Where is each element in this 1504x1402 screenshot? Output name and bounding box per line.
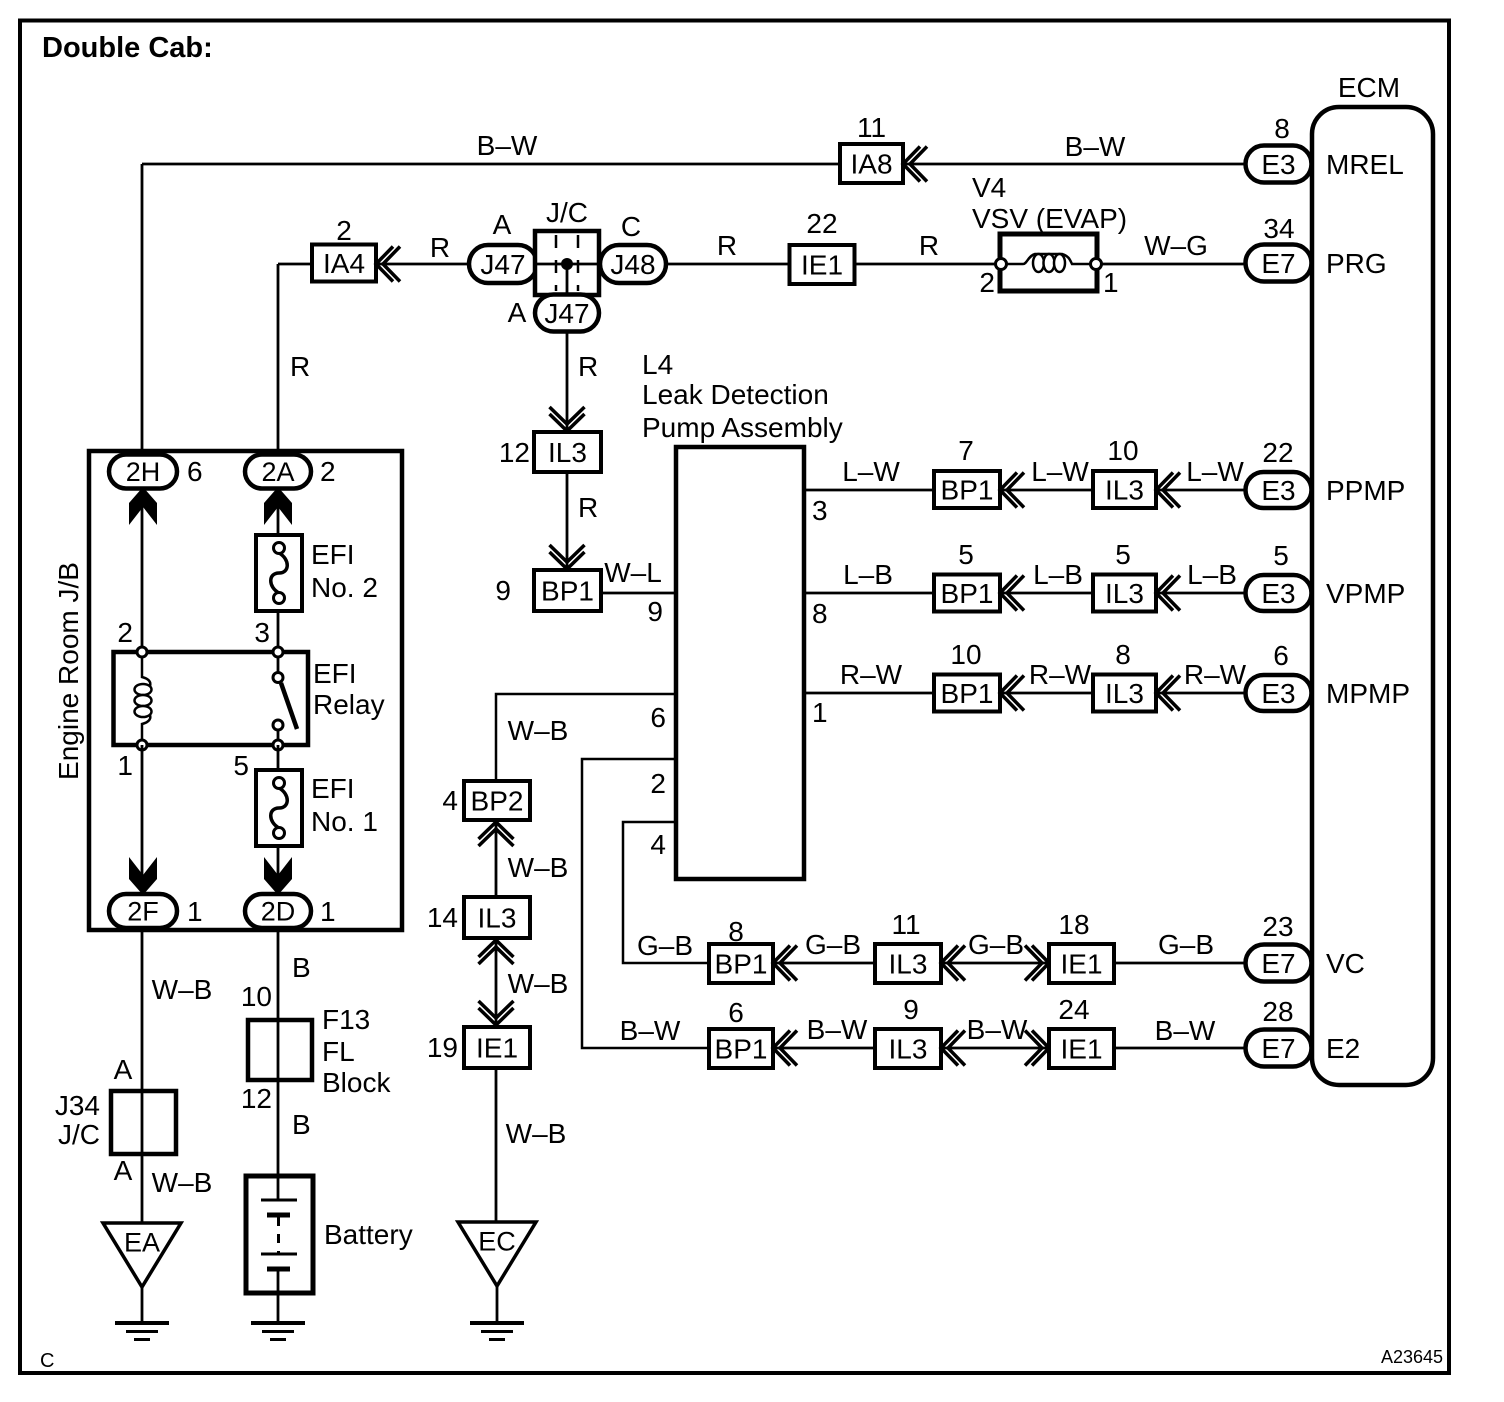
svg-text:11: 11 xyxy=(857,112,886,143)
wire W-B IE1 to EC xyxy=(495,1068,498,1222)
svg-text:28: 28 xyxy=(1262,996,1293,1027)
svg-text:VSV (EVAP): VSV (EVAP) xyxy=(972,203,1127,234)
leak detection pump L4 box xyxy=(676,447,804,879)
wire R from IE1 to VSV xyxy=(855,263,998,266)
wire B-W BP1 to IL3 9 xyxy=(773,1047,875,1050)
svg-text:E3: E3 xyxy=(1261,475,1295,506)
wire fuse No1 to 2D xyxy=(277,846,280,895)
chevron at BP1 6 xyxy=(773,1031,797,1066)
svg-text:Engine Room J/B: Engine Room J/B xyxy=(53,562,84,780)
svg-text:W–B: W–B xyxy=(506,1118,567,1149)
svg-text:2H: 2H xyxy=(126,457,161,487)
svg-text:W–B: W–B xyxy=(152,974,213,1005)
svg-text:E3: E3 xyxy=(1261,149,1295,180)
svg-text:R–W: R–W xyxy=(1184,659,1247,690)
svg-text:MREL: MREL xyxy=(1326,149,1404,180)
svg-text:BP2: BP2 xyxy=(471,786,524,817)
wire W-G from VSV to E7 xyxy=(1101,263,1250,266)
svg-text:R: R xyxy=(717,230,737,261)
svg-text:6: 6 xyxy=(1273,640,1289,671)
connector IL3 8 xyxy=(1093,675,1156,712)
chevron at IA8 xyxy=(903,147,927,182)
arrow up at 2A xyxy=(264,487,292,525)
svg-text:R–W: R–W xyxy=(1029,659,1092,690)
battery box xyxy=(246,1176,313,1293)
svg-text:1: 1 xyxy=(187,896,203,927)
junction block J/C xyxy=(535,231,599,295)
chevron into IL3 12 xyxy=(550,407,585,431)
chevron at BP1 7 xyxy=(1000,473,1024,508)
junction J34 box xyxy=(111,1091,176,1154)
wire L-B BP1 to IL3 5 xyxy=(1000,592,1093,595)
battery internal wire top xyxy=(277,1176,280,1200)
svg-text:W–G: W–G xyxy=(1144,230,1208,261)
svg-text:Relay: Relay xyxy=(313,689,385,720)
svg-text:3: 3 xyxy=(812,495,828,526)
svg-text:2D: 2D xyxy=(261,897,296,927)
relay switch contact upper xyxy=(273,673,283,683)
svg-text:10: 10 xyxy=(241,981,272,1012)
relay switch contact lower xyxy=(273,720,283,730)
svg-text:Double Cab:: Double Cab: xyxy=(42,32,213,64)
svg-text:11: 11 xyxy=(891,909,920,940)
svg-text:IA4: IA4 xyxy=(323,248,365,279)
svg-text:8: 8 xyxy=(812,598,828,629)
relay terminal 3 xyxy=(273,647,283,657)
svg-text:BP1: BP1 xyxy=(715,1034,768,1065)
svg-text:L4: L4 xyxy=(642,349,673,380)
svg-text:Pump Assembly: Pump Assembly xyxy=(642,412,843,443)
connector IE1 18 xyxy=(1049,944,1114,983)
fuse EFI No. 1 xyxy=(256,770,302,846)
svg-text:R: R xyxy=(290,351,310,382)
connector IE1 19 xyxy=(464,1027,530,1068)
svg-text:2: 2 xyxy=(979,267,995,298)
svg-text:L–W: L–W xyxy=(1031,456,1089,487)
svg-text:ECM: ECM xyxy=(1338,72,1400,103)
svg-text:6: 6 xyxy=(650,702,666,733)
wire R-W BP1 to IL3 8 xyxy=(1000,692,1093,695)
wire G-B IL3 to IE1 18 xyxy=(941,962,1049,965)
connector 2A xyxy=(245,455,311,489)
svg-text:E7: E7 xyxy=(1261,248,1295,279)
svg-text:IL3: IL3 xyxy=(548,437,587,468)
svg-text:IL3: IL3 xyxy=(1105,678,1144,709)
svg-text:L–B: L–B xyxy=(1033,559,1083,590)
svg-text:EA: EA xyxy=(124,1228,160,1258)
wire B-W IL3 to IE1 24 xyxy=(941,1047,1049,1050)
svg-text:R: R xyxy=(578,351,598,382)
svg-text:B–W: B–W xyxy=(1155,1015,1216,1046)
svg-text:R: R xyxy=(578,492,598,523)
chevron at IL3 8 xyxy=(1156,676,1180,711)
wire W-B IL3 to IE1 19 xyxy=(495,938,498,1027)
svg-text:R: R xyxy=(919,230,939,261)
connector E7 E2 xyxy=(1246,1030,1312,1067)
arrow down at 2D xyxy=(264,857,292,895)
svg-text:IL3: IL3 xyxy=(889,949,928,980)
relay terminal 2 xyxy=(137,647,147,657)
ground triangle EA xyxy=(103,1223,181,1287)
svg-text:No. 1: No. 1 xyxy=(311,806,378,837)
connector E3 PPMP xyxy=(1246,472,1312,508)
svg-text:5: 5 xyxy=(1115,539,1131,570)
wire J34 to EA xyxy=(141,1154,144,1223)
connector BP1 8 xyxy=(709,944,773,983)
J/C dashed internals xyxy=(556,235,578,291)
svg-text:L–W: L–W xyxy=(842,456,900,487)
svg-text:1: 1 xyxy=(117,750,133,781)
connector IL3 14 xyxy=(464,897,530,938)
battery plate short 1 xyxy=(267,1213,290,1218)
svg-text:J34: J34 xyxy=(55,1090,100,1121)
svg-text:PRG: PRG xyxy=(1326,248,1387,279)
arrow up at 2H xyxy=(129,487,157,525)
svg-text:PPMP: PPMP xyxy=(1326,475,1405,506)
svg-text:No. 2: No. 2 xyxy=(311,572,378,603)
svg-text:B: B xyxy=(292,952,311,983)
svg-text:E3: E3 xyxy=(1261,578,1295,609)
chevron up into BP2 xyxy=(479,822,514,846)
ECM box xyxy=(1312,107,1433,1085)
svg-text:IE1: IE1 xyxy=(476,1033,518,1064)
svg-text:L–W: L–W xyxy=(1186,456,1244,487)
svg-text:10: 10 xyxy=(950,639,981,670)
junction connector J47 A bottom xyxy=(535,295,599,332)
J/C junction dot xyxy=(561,258,573,270)
relay terminal 5 xyxy=(273,740,283,750)
wire B F13 to battery xyxy=(277,1080,280,1177)
connector IL3 9 xyxy=(875,1029,941,1068)
wire battery to ground xyxy=(277,1293,280,1323)
svg-text:6: 6 xyxy=(728,997,744,1028)
svg-text:IL3: IL3 xyxy=(1105,578,1144,609)
J/C wire through xyxy=(537,263,599,266)
wire B-W pump pin2 to BP1 6 xyxy=(582,759,709,1048)
svg-text:9: 9 xyxy=(647,596,663,627)
svg-text:9: 9 xyxy=(903,994,919,1025)
svg-text:2: 2 xyxy=(336,215,352,246)
svg-text:BP1: BP1 xyxy=(715,949,768,980)
relay terminal 1 xyxy=(137,740,147,750)
svg-text:Block: Block xyxy=(322,1067,391,1098)
svg-text:J48: J48 xyxy=(610,249,655,280)
connector BP1 9 xyxy=(534,570,601,611)
svg-text:BP1: BP1 xyxy=(941,578,994,609)
svg-text:C: C xyxy=(621,211,641,242)
connector E7 PRG xyxy=(1246,245,1312,282)
svg-text:J47: J47 xyxy=(480,249,525,280)
svg-text:IE1: IE1 xyxy=(801,250,843,281)
svg-text:2: 2 xyxy=(117,617,133,648)
svg-text:EC: EC xyxy=(478,1227,516,1257)
chevron into IE1 24 xyxy=(1025,1031,1049,1066)
svg-text:A23645: A23645 xyxy=(1381,1347,1443,1367)
ground symbol EA xyxy=(115,1321,169,1325)
svg-text:VPMP: VPMP xyxy=(1326,578,1405,609)
fuse EFI No. 2 xyxy=(256,535,302,611)
svg-text:W–B: W–B xyxy=(508,715,569,746)
wire R from IL3 to BP1 xyxy=(566,472,569,569)
relay coil xyxy=(142,652,150,686)
svg-text:2: 2 xyxy=(650,768,666,799)
svg-text:L–B: L–B xyxy=(1187,559,1237,590)
chevron at IL3 10 xyxy=(1156,473,1180,508)
wire B-W from node to IA8 xyxy=(142,163,840,166)
wire R from IA4 to J47 xyxy=(376,263,472,266)
svg-text:IL3: IL3 xyxy=(889,1034,928,1065)
chevron at IL3 5 xyxy=(1156,576,1180,611)
battery plate long 2 xyxy=(261,1253,297,1256)
svg-text:J/C: J/C xyxy=(58,1119,100,1150)
svg-text:18: 18 xyxy=(1058,909,1089,940)
svg-text:IA8: IA8 xyxy=(850,149,892,180)
svg-text:2: 2 xyxy=(320,456,336,487)
connector BP1 7 xyxy=(934,471,1000,508)
svg-text:C: C xyxy=(40,1350,54,1372)
svg-text:22: 22 xyxy=(806,208,837,239)
wire W-B pump pin6 xyxy=(496,694,676,781)
svg-text:2A: 2A xyxy=(261,457,294,487)
connector 2H xyxy=(109,455,177,489)
chevron at BP1 8 xyxy=(773,946,797,981)
junction connector J47 A xyxy=(469,245,537,283)
svg-text:G–B: G–B xyxy=(805,929,861,960)
connector BP2 4 xyxy=(464,781,530,820)
svg-text:IL3: IL3 xyxy=(1105,475,1144,506)
connector BP1 5 xyxy=(934,575,1000,612)
wire W-B BP2 to IL3 14 xyxy=(495,820,498,897)
svg-text:Leak Detection: Leak Detection xyxy=(642,379,829,410)
wire L-W pump to BP1 7 xyxy=(804,489,934,492)
VSV coil xyxy=(1006,254,1092,264)
battery internal wire bottom xyxy=(277,1269,280,1293)
svg-text:IL3: IL3 xyxy=(478,903,517,934)
connector IA8 xyxy=(840,144,903,183)
junction connector J48 C xyxy=(600,245,666,283)
svg-text:E7: E7 xyxy=(1261,1033,1295,1064)
svg-text:B–W: B–W xyxy=(967,1014,1028,1045)
wire EC to ground xyxy=(496,1286,499,1323)
svg-text:B: B xyxy=(292,1109,311,1140)
connector IA4 xyxy=(312,245,376,282)
svg-text:3: 3 xyxy=(254,617,270,648)
svg-text:Battery: Battery xyxy=(324,1219,413,1250)
fusible link block F13 xyxy=(248,1020,312,1080)
svg-text:L–B: L–B xyxy=(843,559,893,590)
chevron into BP1 9 xyxy=(550,545,585,569)
battery plate long 1 xyxy=(261,1199,297,1202)
svg-text:9: 9 xyxy=(495,575,511,606)
svg-text:A: A xyxy=(114,1155,133,1186)
wire EA to ground xyxy=(141,1287,144,1323)
connector IE1 24 xyxy=(1049,1029,1114,1068)
ground triangle EC xyxy=(458,1222,536,1286)
svg-text:B–W: B–W xyxy=(620,1015,681,1046)
svg-text:EFI: EFI xyxy=(313,658,357,689)
svg-text:G–B: G–B xyxy=(637,930,693,961)
svg-text:B–W: B–W xyxy=(1065,131,1126,162)
connector IL3 11 xyxy=(875,944,941,983)
wire J34 internal xyxy=(141,1091,144,1154)
svg-text:E7: E7 xyxy=(1261,948,1295,979)
relay switch wire xyxy=(277,652,280,677)
EFI relay box xyxy=(114,652,309,745)
wire 2A to fuse EFI No2 xyxy=(277,488,280,535)
wire R from IA4 to 2A node xyxy=(278,263,312,266)
relay switch blade xyxy=(281,683,297,729)
wire B-W IE1 to E7 28 xyxy=(1114,1047,1250,1050)
chevron at BP1 5 xyxy=(1000,576,1024,611)
svg-text:8: 8 xyxy=(1274,113,1290,144)
battery dashed middle xyxy=(277,1217,280,1253)
connector IL3 5 xyxy=(1093,575,1156,612)
wire G-B IE1 to E7 23 xyxy=(1114,962,1250,965)
chevron at IL3 9 xyxy=(941,1031,965,1066)
wire L-W IL3 to E3 22 xyxy=(1156,489,1252,492)
svg-text:V4: V4 xyxy=(972,172,1006,203)
connector IE1 22 xyxy=(790,245,855,284)
svg-text:G–B: G–B xyxy=(968,929,1024,960)
svg-text:EFI: EFI xyxy=(311,773,355,804)
svg-text:19: 19 xyxy=(427,1032,458,1063)
svg-text:14: 14 xyxy=(427,902,458,933)
wire relay pin5 to fuse EFI No1 xyxy=(277,745,280,770)
wire G-B pump pin4 to BP1 8 xyxy=(623,822,709,963)
svg-text:FL: FL xyxy=(322,1036,355,1067)
svg-text:4: 4 xyxy=(650,829,666,860)
svg-text:10: 10 xyxy=(1107,435,1138,466)
svg-text:A: A xyxy=(114,1054,133,1085)
J/C wire down from dot xyxy=(566,264,569,296)
chevron at IL3 11 xyxy=(941,946,965,981)
svg-text:34: 34 xyxy=(1263,213,1294,244)
wire L-W BP1 to IL3 10 xyxy=(1000,489,1093,492)
arrow down at 2F xyxy=(129,857,157,895)
svg-text:F13: F13 xyxy=(322,1004,370,1035)
svg-text:4: 4 xyxy=(442,785,458,816)
svg-text:6: 6 xyxy=(187,456,203,487)
connector BP1 10 xyxy=(934,675,1000,712)
svg-text:8: 8 xyxy=(728,916,744,947)
connector E3 VPMP xyxy=(1246,575,1312,611)
connector E3 MPMP xyxy=(1246,675,1312,711)
svg-text:E3: E3 xyxy=(1261,678,1295,709)
svg-text:1: 1 xyxy=(1103,267,1119,298)
svg-text:5: 5 xyxy=(233,750,249,781)
wire B-W from IA8 to E3 xyxy=(903,163,1250,166)
svg-text:BP1: BP1 xyxy=(541,576,594,607)
svg-text:A: A xyxy=(493,209,512,240)
relay switch lower wire xyxy=(277,725,280,745)
connector 2D xyxy=(245,894,311,928)
svg-text:J/C: J/C xyxy=(546,197,588,228)
chevron at BP1 10 xyxy=(1000,676,1024,711)
svg-text:A: A xyxy=(508,297,527,328)
svg-text:1: 1 xyxy=(812,697,828,728)
svg-text:G–B: G–B xyxy=(1158,929,1214,960)
svg-text:W–B: W–B xyxy=(508,968,569,999)
ground symbol EC xyxy=(470,1321,524,1325)
svg-text:R: R xyxy=(430,232,450,263)
wire G-B BP1 to IL3 11 xyxy=(773,962,875,965)
svg-text:5: 5 xyxy=(958,539,974,570)
wire R-W pump to BP1 10 xyxy=(804,692,934,695)
svg-text:EFI: EFI xyxy=(311,539,355,570)
svg-text:12: 12 xyxy=(241,1083,272,1114)
ground symbol battery xyxy=(251,1321,305,1325)
VSV EVAP valve V4 xyxy=(1000,234,1097,291)
wire 2H to relay pin2 xyxy=(141,488,144,652)
chevron into IE1 18 xyxy=(1025,946,1049,981)
svg-text:MPMP: MPMP xyxy=(1326,678,1410,709)
wire B 2D to F13 xyxy=(277,928,280,1020)
svg-text:1: 1 xyxy=(320,896,336,927)
svg-text:BP1: BP1 xyxy=(941,475,994,506)
wire R down from J47 xyxy=(566,332,569,433)
connector IL3 12 xyxy=(534,432,601,472)
svg-text:8: 8 xyxy=(1115,639,1131,670)
svg-text:W–B: W–B xyxy=(152,1167,213,1198)
connector E7 VC xyxy=(1246,945,1312,982)
svg-text:BP1: BP1 xyxy=(941,678,994,709)
svg-text:B–W: B–W xyxy=(477,130,538,161)
svg-text:B–W: B–W xyxy=(807,1014,868,1045)
wire through F13 xyxy=(277,1020,280,1080)
wire W-L from BP1 to pump pin 9 xyxy=(601,592,676,595)
wire R vertical to 2A xyxy=(277,264,280,455)
svg-text:R–W: R–W xyxy=(840,659,903,690)
svg-text:VC: VC xyxy=(1326,948,1365,979)
connector E3 MREL xyxy=(1246,146,1312,183)
Engine Room J/B box xyxy=(89,451,402,930)
svg-text:IE1: IE1 xyxy=(1060,1034,1102,1065)
svg-text:J47: J47 xyxy=(544,298,589,329)
chevron at IA4 xyxy=(376,247,400,282)
wire L-B pump to BP1 5 xyxy=(804,592,934,595)
wire B-W vertical to 2H xyxy=(141,164,144,455)
chevron up into IL3 14 xyxy=(479,940,514,964)
svg-text:W–B: W–B xyxy=(508,852,569,883)
connector 2F xyxy=(109,894,177,928)
VSV terminal 1 xyxy=(1091,259,1102,270)
svg-text:W–L: W–L xyxy=(604,557,662,588)
svg-text:24: 24 xyxy=(1058,994,1089,1025)
svg-text:22: 22 xyxy=(1262,437,1293,468)
connector BP1 6 xyxy=(709,1029,773,1068)
VSV terminal 2 xyxy=(996,259,1007,270)
svg-text:23: 23 xyxy=(1262,911,1293,942)
svg-text:5: 5 xyxy=(1273,540,1289,571)
svg-text:IE1: IE1 xyxy=(1060,949,1102,980)
svg-text:12: 12 xyxy=(499,437,530,468)
wire relay pin1 to 2F xyxy=(141,745,144,895)
svg-text:E2: E2 xyxy=(1326,1033,1360,1064)
wire fuse to relay pin3 xyxy=(277,611,280,652)
connector IL3 10 xyxy=(1093,471,1156,508)
chevron down into IE1 19 xyxy=(479,1001,514,1025)
battery plate short 2 xyxy=(267,1267,290,1272)
svg-text:7: 7 xyxy=(958,435,974,466)
wire L-B IL3 to E3 5 xyxy=(1156,592,1252,595)
svg-text:2F: 2F xyxy=(127,897,159,927)
wire R from J48 to IE1 xyxy=(666,263,790,266)
wire W-B 2F to J34 xyxy=(141,928,144,1091)
wire R-W IL3 to E3 6 xyxy=(1156,692,1252,695)
